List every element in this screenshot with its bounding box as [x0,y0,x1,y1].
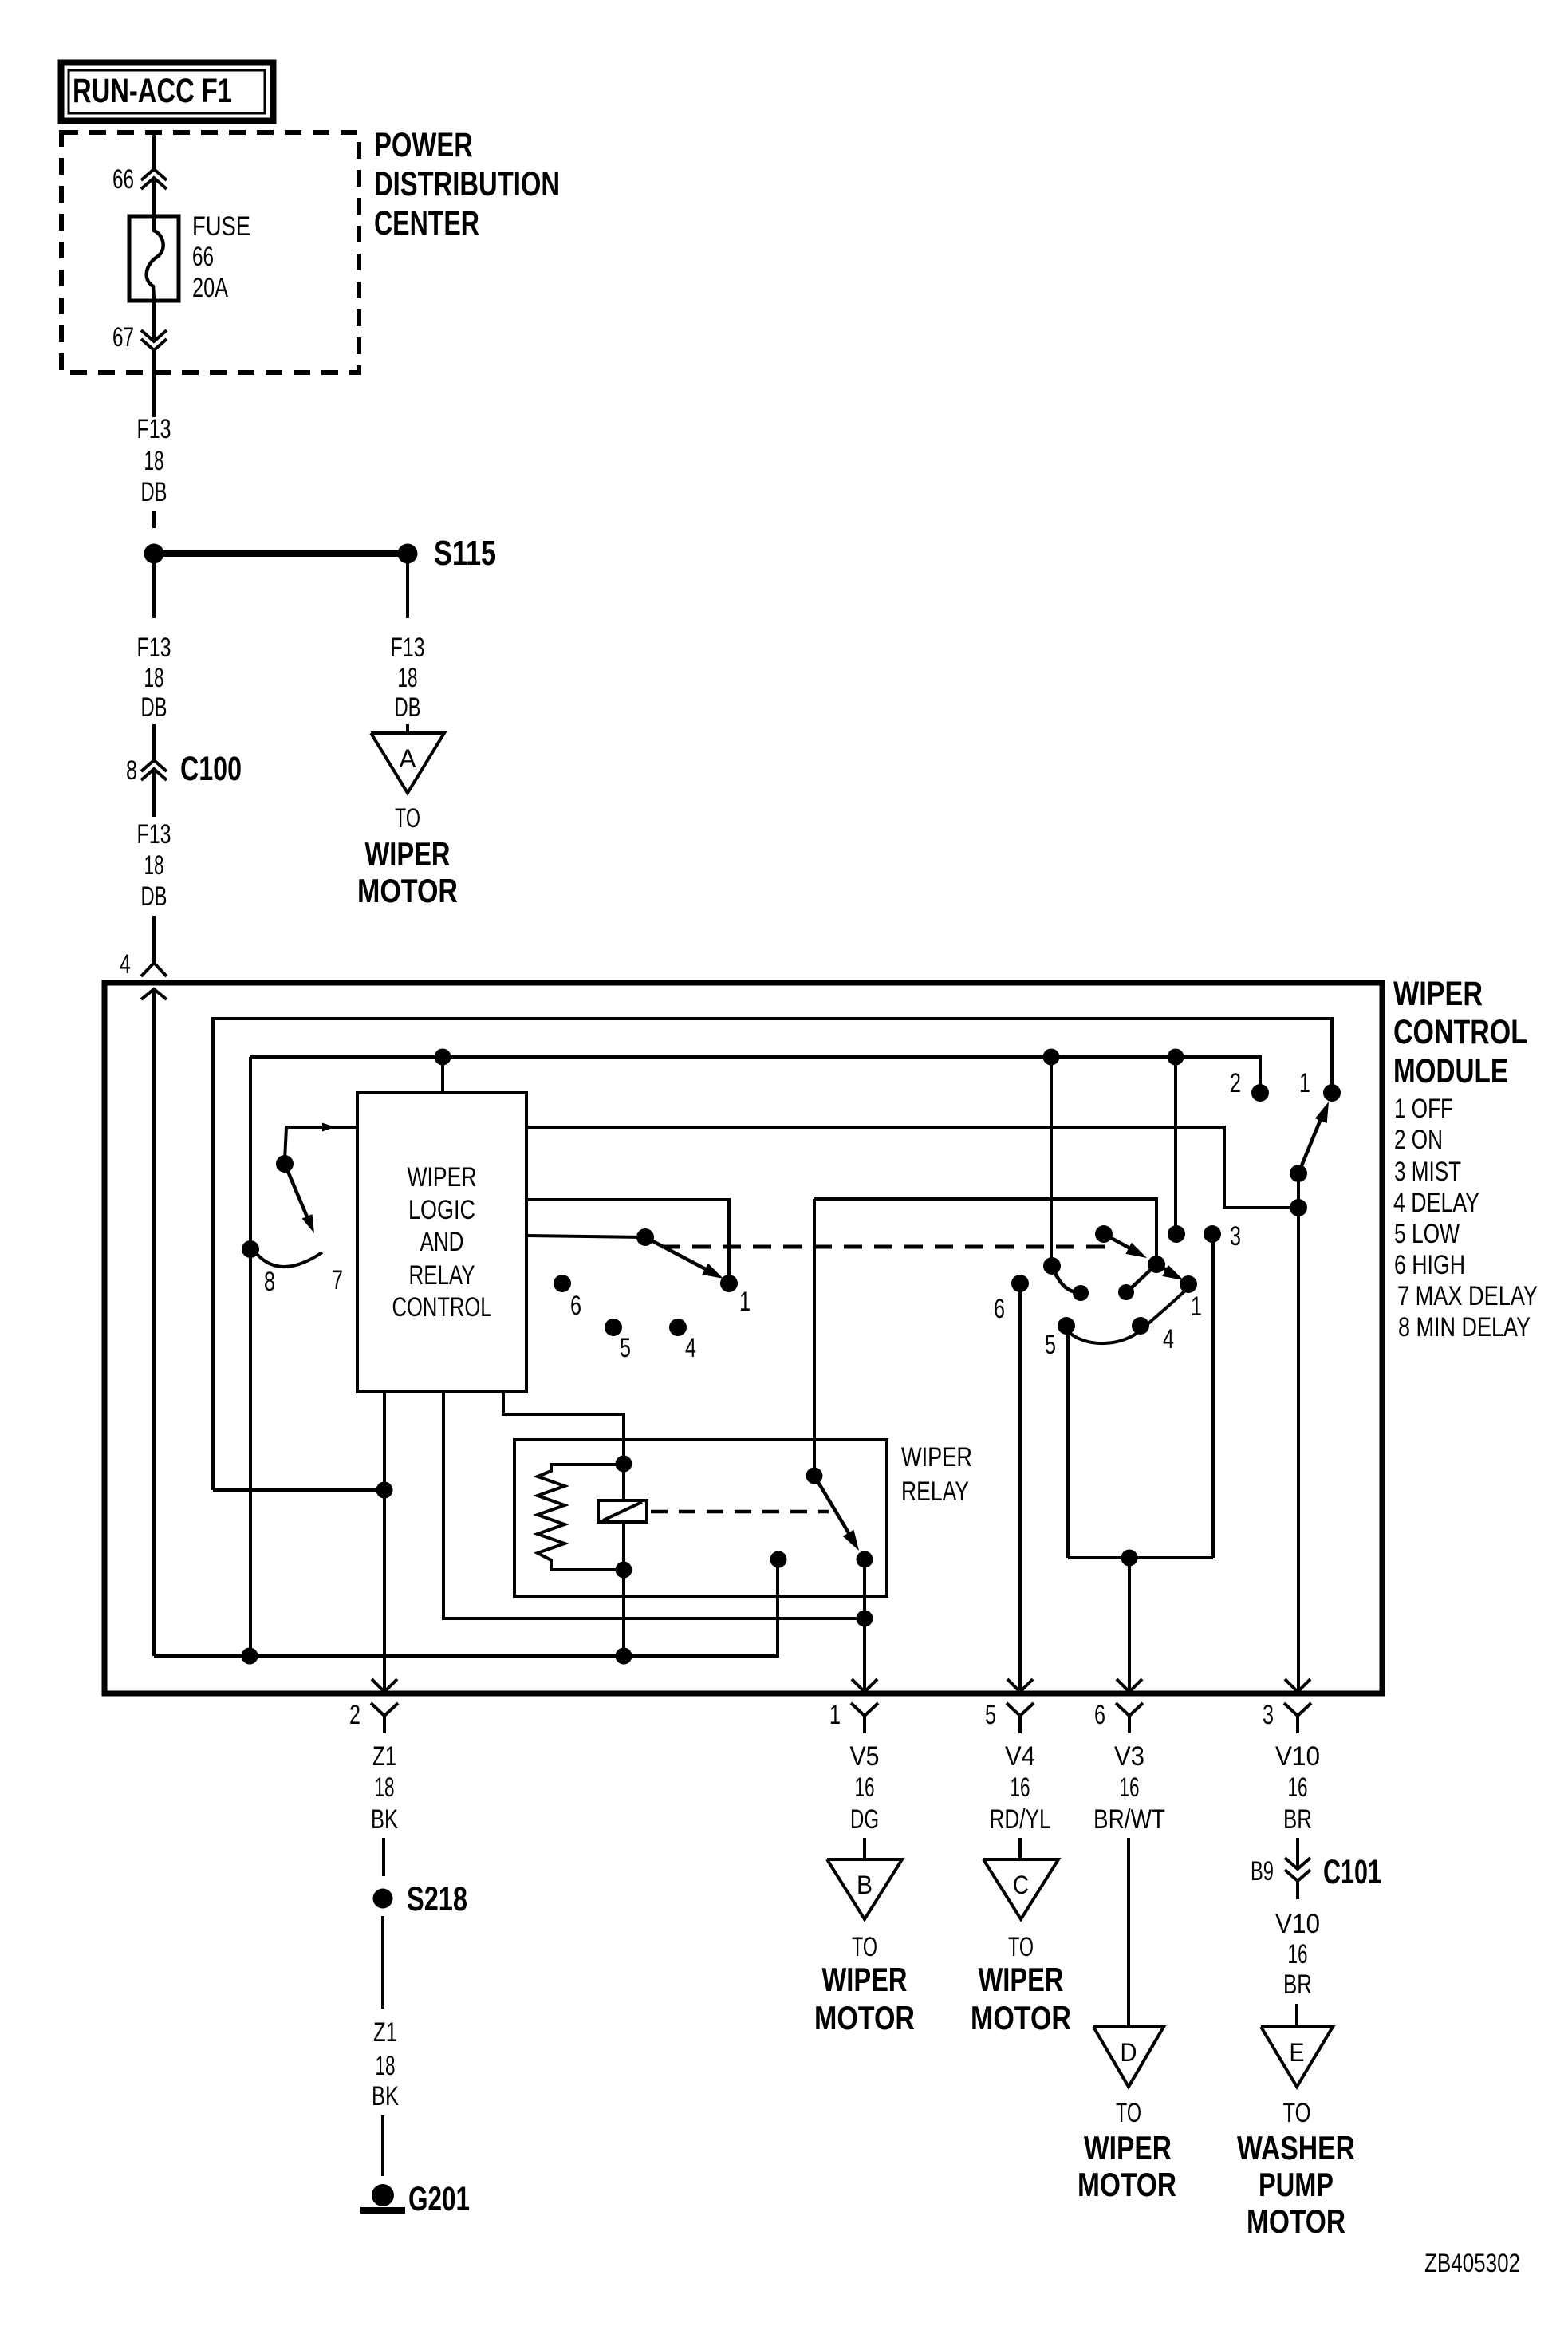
off-page connector D [1093,2027,1164,2087]
wire contact 3 down [1211,1234,1215,1558]
wire relay contact to module pin 1 [863,1559,866,1690]
min-max delay switch pivot [276,1155,294,1173]
svg-text:WIPER: WIPER [901,1442,972,1473]
wire logic box to relay coil [503,1391,624,1460]
relay coil top junction [616,1456,632,1473]
wiper control module box [104,983,1382,1693]
rotary terminal from loop [1043,1257,1061,1275]
resistor across coil [538,1465,624,1570]
svg-text:4 DELAY: 4 DELAY [1393,1188,1479,1218]
svg-text:67: 67 [112,322,134,353]
wire from RUN-ACC F1 into PDC [152,132,156,169]
svg-text:8: 8 [264,1267,275,1297]
svg-text:3 MIST: 3 MIST [1394,1157,1461,1187]
left wire segment below splice [152,562,156,618]
svg-text:DG: DG [850,1804,879,1835]
svg-text:1: 1 [1299,1068,1310,1098]
svg-text:TO: TO [1008,1932,1034,1962]
svg-text:RELAY: RELAY [409,1260,475,1291]
pin 1 OFF terminal [1323,1084,1341,1102]
module pin 6 output [1117,1679,1129,1692]
svg-text:6: 6 [994,1294,1005,1324]
wire logic box to relay contact junction [443,1391,865,1618]
contact 3 terminal [1204,1225,1221,1243]
svg-text:CONTROL: CONTROL [392,1292,492,1323]
connector pin 4 chevrons [141,963,167,976]
wire down to wiper relay arm [813,1199,816,1473]
contact dot lower left [1073,1285,1089,1301]
junction ground bus and coil column [616,1648,632,1665]
svg-text:POWER: POWER [374,126,473,164]
wire down to contact [1174,1057,1177,1231]
svg-text:2: 2 [1230,1068,1241,1098]
contact 1 terminal [1180,1275,1197,1293]
off-page connector A [371,733,444,793]
contact 4 [669,1319,687,1336]
svg-text:PUMP: PUMP [1259,2166,1334,2203]
contact 1 [720,1275,738,1292]
wire segment [382,1838,385,1876]
contact 2-3 feed dot [1168,1225,1185,1243]
svg-text:MOTOR: MOTOR [1247,2202,1345,2240]
wire joining 5 and 3 columns [1068,1556,1213,1559]
svg-text:3: 3 [1263,1700,1274,1730]
contact 5 terminal [1058,1317,1075,1335]
ground G201 [372,2184,394,2206]
svg-text:6 HIGH: 6 HIGH [1394,1250,1465,1280]
wash-wipe switch pivot [636,1228,654,1246]
wire segment [1018,1838,1022,1859]
svg-text:WASHER: WASHER [1237,2129,1355,2166]
wire segment [152,724,156,760]
module pin 5 output [1007,1679,1020,1692]
svg-text:RELAY: RELAY [901,1476,969,1507]
wire into fuse [152,178,156,217]
wire to wiper logic box top [441,1057,444,1094]
svg-text:16: 16 [1120,1772,1140,1803]
svg-text:5 LOW: 5 LOW [1394,1219,1460,1249]
wire from pin 4 down inside module [152,989,156,1656]
wire logic box to on-off switch feed [526,1127,1294,1208]
splice S115 [398,544,418,564]
svg-text:WIPER: WIPER [1084,2129,1172,2166]
svg-text:18: 18 [144,663,164,693]
svg-text:8: 8 [126,755,137,786]
contact 5 [605,1319,622,1336]
relay coil [622,1464,625,1570]
module pin 3 output [1285,1679,1298,1692]
power distribution center dashed box [61,132,359,373]
wire segment [1296,1838,1299,1869]
svg-text:TO: TO [1283,2098,1311,2128]
svg-text:TO: TO [852,1932,877,1962]
junction on loop at logic box [435,1049,451,1066]
svg-text:1: 1 [1191,1291,1202,1322]
contact dot lower mid [1118,1284,1134,1300]
wire segment [152,511,156,528]
mechanical linkage dashed line [662,1245,1110,1249]
svg-text:B9: B9 [1251,1856,1274,1887]
svg-text:4: 4 [120,949,131,980]
svg-text:WIPER: WIPER [365,835,451,873]
junction on inner loop return [376,1482,393,1499]
svg-text:E: E [1290,2038,1305,2067]
wire on-off feed down to module pin 3 [1297,1173,1300,1690]
svg-text:3: 3 [1230,1221,1241,1252]
inner loop wire to switch pivot feed [213,1019,1332,1490]
junction feeding rotary switch [1043,1049,1060,1066]
wire segment [381,2115,384,2176]
wiper logic and relay control box [357,1093,526,1391]
on-off switch arm to OFF [1298,1115,1322,1173]
svg-text:6: 6 [570,1291,581,1321]
svg-text:5: 5 [1045,1330,1056,1360]
svg-text:Z1: Z1 [373,2017,397,2048]
svg-text:7 MAX DELAY: 7 MAX DELAY [1397,1281,1538,1311]
wire segment [1295,2004,1298,2026]
svg-text:BK: BK [371,1804,398,1835]
svg-text:18: 18 [398,663,418,693]
wire segment [406,724,409,732]
wash-wipe switch arm [645,1237,716,1275]
svg-text:WIPER: WIPER [822,1961,908,1998]
wire down to module pin 6 [1128,1558,1131,1690]
svg-text:C: C [1013,1871,1029,1899]
svg-text:V10: V10 [1275,1741,1320,1772]
terminal 8 min delay [242,1240,259,1258]
svg-text:A: A [400,744,417,773]
wire out of PDC [152,350,156,417]
svg-text:D: D [1121,2038,1137,2067]
svg-text:RD/YL: RD/YL [990,1804,1051,1835]
wire logic box to wash-wipe switch contact 1 [526,1200,729,1279]
svg-text:2 ON: 2 ON [1394,1125,1443,1155]
wire from loop down to 8 terminal and ground bus [249,1057,252,1656]
junction with logic feedback wire [857,1611,873,1627]
svg-text:4: 4 [685,1333,696,1363]
rotary switch pivot [1095,1225,1113,1243]
svg-text:MODULE: MODULE [1393,1052,1508,1090]
wire contact 6 to module pin 5 [1018,1283,1022,1690]
svg-text:5: 5 [620,1333,631,1363]
svg-text:16: 16 [855,1772,875,1803]
svg-text:LOGIC: LOGIC [408,1195,475,1225]
svg-text:C100: C100 [180,750,242,788]
svg-text:FUSE: FUSE [192,211,250,242]
svg-text:Z1: Z1 [372,1741,396,1772]
svg-text:5: 5 [985,1700,996,1730]
svg-text:CONTROL: CONTROL [1393,1013,1527,1051]
contact 4 terminal [1132,1317,1149,1335]
relay coil bottom junction [616,1562,632,1579]
svg-text:16: 16 [1288,1939,1308,1969]
S115 wire segment down [406,562,409,618]
svg-text:AND: AND [420,1227,464,1257]
junction ground bus and 8-terminal column [242,1648,258,1665]
svg-text:1: 1 [739,1287,751,1317]
wire to S115 [163,550,399,557]
wire coil bottom to ground bus [622,1570,625,1656]
wire segment [152,769,156,817]
svg-text:V5: V5 [850,1741,880,1772]
svg-text:MOTOR: MOTOR [357,872,458,909]
rotary arm second segment [1156,1264,1176,1275]
fuse F1 66 20A [129,216,179,301]
fuse label box RUN-ACC F1 [61,63,274,121]
wire from fuse to pin 67 [152,301,156,341]
relay second contact [770,1551,787,1568]
wire loop to min-max delay terminal and pin 2 [250,1057,1260,1090]
connector C101 pin B9 [1285,1858,1310,1869]
svg-text:S218: S218 [407,1880,467,1918]
splice S218 [373,1889,393,1909]
connector pin 66 chevrons [141,169,167,180]
svg-text:20A: 20A [192,273,228,303]
long wire segment [1127,1838,1130,2026]
wire contact 5 down [1066,1326,1070,1558]
svg-text:18: 18 [375,1772,395,1803]
pin 2 ON terminal [1251,1084,1269,1102]
svg-text:F13: F13 [137,414,171,444]
svg-text:MOTOR: MOTOR [971,1999,1071,2036]
svg-text:V10: V10 [1275,1909,1320,1939]
relay normally-open contact [857,1551,873,1568]
wire logic box to ground bus junction [383,1391,386,1690]
svg-text:G201: G201 [408,2180,470,2218]
svg-text:DISTRIBUTION: DISTRIBUTION [374,165,560,203]
rotary finger to contact [1054,1271,1078,1292]
svg-text:WIPER: WIPER [408,1162,477,1193]
svg-text:BR: BR [1283,1804,1312,1835]
svg-text:16: 16 [1288,1772,1308,1803]
connector C100 pin 8 [141,760,167,771]
junction to module pin 6 [1121,1550,1138,1567]
svg-text:18: 18 [144,850,164,881]
wire logic box to delay switch pivot [285,1127,357,1161]
off-page connector B [827,1859,902,1919]
svg-text:18: 18 [144,446,164,476]
svg-text:8 MIN DELAY: 8 MIN DELAY [1398,1312,1531,1342]
on-off switch feed terminal [1290,1199,1307,1216]
svg-text:DB: DB [141,477,167,507]
wire logic box to wash-wipe pivot [526,1236,645,1237]
svg-text:MOTOR: MOTOR [814,1999,915,2036]
module pin 1 output [852,1679,865,1692]
svg-text:V4: V4 [1005,1741,1035,1772]
rotary finger from common [1129,1264,1156,1290]
wire relay common to rotary wiper [814,1199,1156,1260]
rotary travel arc 5-4-1 [1066,1289,1187,1343]
svg-text:ZB405302: ZB405302 [1424,2249,1520,2277]
svg-text:2: 2 [349,1700,360,1730]
svg-text:WIPER: WIPER [1393,975,1483,1013]
svg-text:BK: BK [372,2081,399,2111]
relay actuation dashed line [651,1510,829,1514]
wiper relay box [514,1440,887,1596]
contact 6 terminal [1011,1275,1029,1292]
svg-text:6: 6 [1094,1700,1105,1730]
ground bus wire [154,1559,778,1656]
wire segment [863,1838,866,1859]
svg-text:4: 4 [1163,1324,1174,1354]
svg-text:S115: S115 [434,534,496,573]
svg-text:7: 7 [332,1265,343,1295]
svg-text:TO: TO [1116,2098,1141,2128]
svg-text:18: 18 [376,2051,396,2081]
svg-text:F13: F13 [137,819,171,850]
junction feeding contact 2-3 column [1168,1049,1184,1066]
svg-text:DB: DB [141,881,167,912]
svg-text:MOTOR: MOTOR [1078,2166,1176,2203]
delay switch travel arc [257,1252,322,1267]
wire segment to module pin 4 [152,916,156,963]
svg-text:BR/WT: BR/WT [1093,1804,1165,1835]
inner loop return wire [213,1488,384,1492]
splice junction node [144,544,164,564]
svg-text:66: 66 [112,164,134,195]
svg-text:C101: C101 [1323,1853,1381,1891]
svg-text:DB: DB [141,692,167,723]
wire segment [381,1916,384,2009]
svg-text:F13: F13 [391,633,425,663]
off-page connector C [983,1859,1058,1919]
svg-text:TO: TO [395,803,420,834]
relay switch common [806,1468,823,1484]
svg-text:B: B [857,1871,873,1899]
svg-text:CENTER: CENTER [374,204,479,242]
module pin 2 output [372,1679,384,1692]
connector pin 67 chevrons [141,330,167,341]
svg-text:BR: BR [1283,1969,1312,2000]
svg-text:1 OFF: 1 OFF [1394,1094,1453,1124]
delay switch arm [285,1164,310,1224]
svg-text:1: 1 [829,1700,841,1730]
svg-text:F13: F13 [137,633,171,663]
off-page connector E [1261,2027,1333,2087]
wire down to rotary terminal [1050,1057,1053,1262]
contact 6 [554,1275,571,1292]
on-off switch pivot [1290,1165,1307,1182]
svg-text:66: 66 [192,242,214,272]
relay switch arm [814,1476,850,1536]
svg-text:RUN-ACC F1: RUN-ACC F1 [73,72,232,110]
svg-text:DB: DB [395,692,421,723]
svg-text:WIPER: WIPER [979,1961,1064,1998]
rotary common contact [1148,1256,1165,1273]
svg-text:16: 16 [1011,1772,1030,1803]
rotary arm first segment [1104,1234,1139,1253]
svg-text:V3: V3 [1114,1741,1144,1772]
